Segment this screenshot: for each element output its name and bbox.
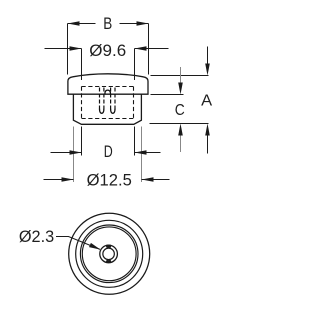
- svg-text:Ø12.5: Ø12.5: [87, 170, 132, 189]
- svg-text:Ø2.3: Ø2.3: [19, 228, 54, 246]
- svg-text:D: D: [104, 143, 113, 161]
- svg-text:C: C: [175, 102, 185, 119]
- svg-text:A: A: [201, 93, 213, 110]
- svg-text:Ø9.6: Ø9.6: [89, 41, 126, 60]
- svg-text:B: B: [103, 15, 112, 33]
